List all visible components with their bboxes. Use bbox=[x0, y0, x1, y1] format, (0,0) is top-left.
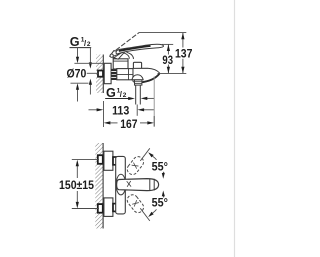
O70 bottom extension line bbox=[71, 82, 89, 84]
lever handle (side view) bbox=[116, 44, 163, 54]
shower outlet dome bbox=[132, 75, 143, 80]
mixer body bbox=[117, 69, 133, 80]
O70 bottom arrow bbox=[76, 83, 79, 101]
cartridge ellipse (plan) bbox=[116, 174, 126, 195]
label G 1/2 (under body) bbox=[106, 86, 127, 100]
diverter knob on spout bbox=[133, 62, 141, 69]
svg-text:Ø70: Ø70 bbox=[67, 67, 87, 80]
svg-text:137: 137 bbox=[175, 47, 192, 60]
raised handle dashed line bbox=[116, 33, 139, 51]
upper escutcheon (plan) bbox=[104, 151, 113, 170]
handle tip fan bbox=[110, 51, 125, 60]
spout underside accent bbox=[141, 74, 160, 83]
upper union nut (plan) bbox=[113, 157, 116, 165]
lower dashed handle position bbox=[125, 193, 145, 215]
dimension 167 arrows bbox=[104, 121, 154, 124]
svg-text:55°: 55° bbox=[152, 197, 169, 210]
outlet tube G1/2 bbox=[136, 85, 141, 104]
O70 top extension line bbox=[74, 62, 104, 64]
dimension 137 top extension line bbox=[139, 32, 186, 34]
page divider line bbox=[234, 0, 236, 257]
escutcheon (side view) bbox=[104, 63, 111, 83]
wall hatching (plan view) bbox=[95, 143, 103, 229]
lever handle (plan) bbox=[117, 179, 159, 191]
upper 55 degree arrow (to lever) bbox=[162, 172, 165, 179]
outlet nut bbox=[135, 80, 142, 85]
label G 1/2 (top left) bbox=[70, 35, 91, 49]
dimension 93 line and arrows bbox=[167, 44, 170, 73]
lower 55 degree arc arrow (to extension line) bbox=[148, 209, 156, 217]
dimension 150+-15 line and arrows bbox=[76, 160, 79, 209]
dimension 167 right extension line bbox=[153, 116, 155, 127]
O70 top arrow (from underline) bbox=[76, 48, 79, 64]
lever accent stroke bbox=[119, 46, 151, 51]
svg-text:150±15: 150±15 bbox=[59, 179, 94, 192]
lower union nut (plan) bbox=[113, 204, 116, 212]
svg-text:167: 167 bbox=[120, 118, 137, 131]
valve upper housing bbox=[113, 59, 128, 69]
union nuts (dark) bbox=[111, 69, 116, 80]
upper wall inlet square bbox=[98, 155, 103, 164]
spout (side view) bbox=[133, 68, 160, 82]
svg-text:93: 93 bbox=[162, 54, 173, 67]
cartridge neck / lever back bbox=[124, 52, 134, 59]
upper 55 degree arc arrow (to extension line) bbox=[148, 152, 156, 160]
body column (plan) bbox=[116, 156, 126, 214]
svg-text:55°: 55° bbox=[152, 160, 169, 173]
G1/2 inlet bottom arrow bbox=[89, 79, 92, 95]
G1/2 leader arrow to inlet (from underline right) bbox=[89, 48, 92, 69]
wall hatching (top view) bbox=[96, 55, 103, 94]
tube right-side arrow bbox=[141, 97, 155, 100]
spout tip extension line bbox=[153, 77, 155, 127]
G1/2 underline and leader arrow to tube bbox=[105, 97, 135, 100]
upper dashed handle position bbox=[125, 155, 145, 177]
upper angle extension line bbox=[140, 148, 150, 161]
lower escutcheon (plan) bbox=[104, 198, 113, 217]
left extension line (wall face, dims 113/167) bbox=[103, 101, 105, 127]
lower 55 degree arrow (to lever) bbox=[162, 191, 165, 198]
dimension 137 line and arrows bbox=[181, 33, 184, 74]
G1/2 underline bbox=[70, 47, 92, 49]
dimension 93 top extension line bbox=[162, 43, 173, 45]
lower angle extension line bbox=[140, 208, 150, 221]
O70 leader to wall bbox=[87, 72, 98, 74]
dimension 113 arrows bbox=[89, 108, 154, 111]
lower wall inlet square bbox=[98, 204, 103, 213]
dimension 150+-15 extension lines bbox=[72, 159, 99, 161]
wall inlet square G1/2 bbox=[98, 71, 103, 77]
svg-text:113: 113 bbox=[112, 105, 130, 118]
svg-text:2: 2 bbox=[123, 92, 127, 99]
bottom extension line (spout outlet level) bbox=[158, 72, 187, 74]
svg-text:2: 2 bbox=[87, 41, 91, 48]
tube centre extension line bbox=[136, 105, 138, 116]
